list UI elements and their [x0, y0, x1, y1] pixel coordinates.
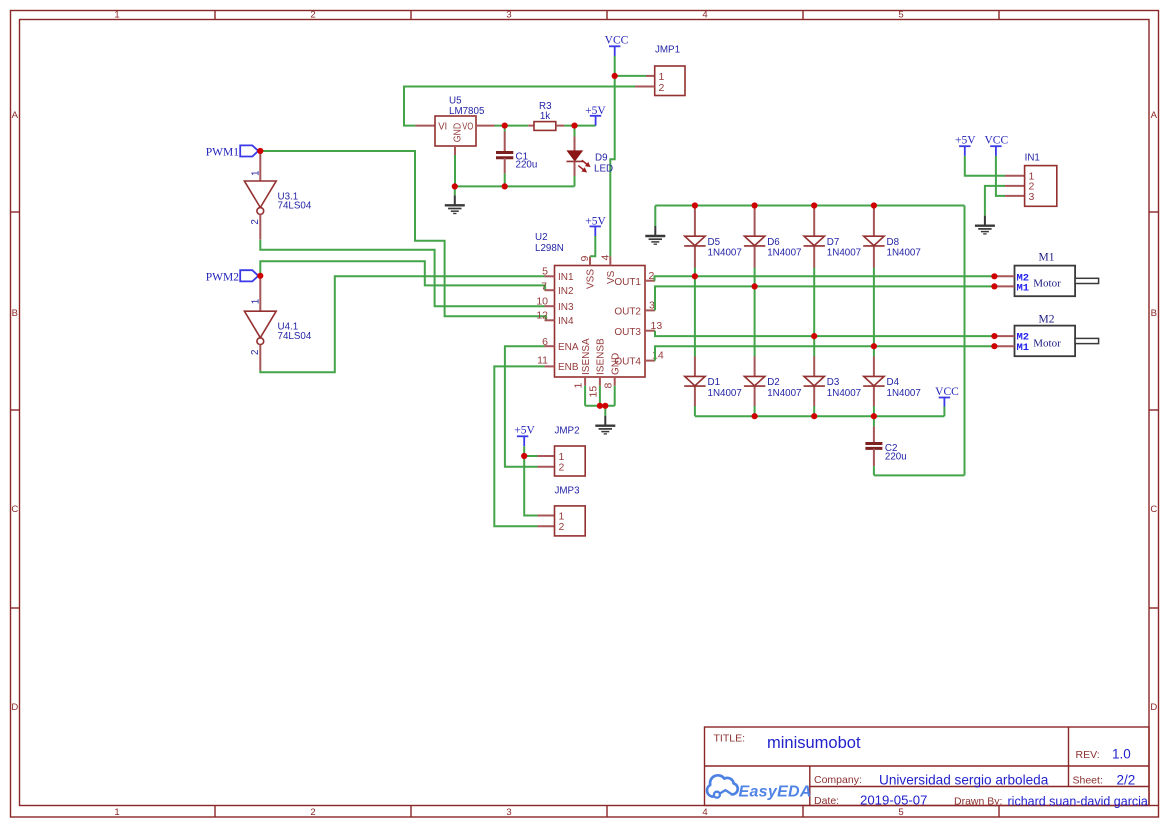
- inverter U4.1 74LS04: [244, 299, 311, 355]
- wire ENB to JMP3 pin 2: [494, 366, 544, 526]
- pin lead D9 cathode: [574, 161, 576, 176]
- svg-text:2: 2: [310, 807, 315, 818]
- svg-text:VO: VO: [462, 122, 473, 133]
- svg-text:VCC: VCC: [605, 35, 629, 47]
- pin jog U2 OUT3 pin 13: [645, 320, 662, 332]
- svg-text:1k: 1k: [540, 111, 550, 122]
- svg-text:OUT2: OUT2: [614, 306, 641, 317]
- svg-text:ISENSA: ISENSA: [581, 338, 592, 375]
- diode D5 1N4007: [684, 236, 742, 258]
- pin lead U4.1 output: [259, 345, 261, 371]
- node junction at 754.6,416.2: [752, 413, 758, 419]
- pin lead U2 GND pin 8: [603, 377, 615, 389]
- wire JMP1 pin 2 to U5 VI: [404, 87, 635, 126]
- svg-text:1: 1: [114, 10, 119, 21]
- node junction at 754.6,286.4: [752, 283, 758, 289]
- pin lead U5 VO: [476, 125, 495, 127]
- svg-text:3: 3: [506, 807, 511, 818]
- pin lead R3 left: [528, 125, 534, 127]
- pin lead R3 right: [556, 125, 565, 127]
- pin lead JMP1 pin 1: [646, 75, 655, 77]
- svg-text:D8: D8: [887, 237, 900, 248]
- column 2 wires: [754, 206, 756, 417]
- svg-text:EasyEDA: EasyEDA: [739, 784, 812, 801]
- net VCC symbol right of C2: [935, 386, 959, 407]
- svg-text:PWM1: PWM1: [206, 147, 239, 159]
- node junction at 504.7,186.4: [502, 183, 508, 189]
- svg-text:PWM2: PWM2: [206, 271, 239, 283]
- net +5V symbol above U2: [585, 216, 606, 236]
- node junction at 605.3,405.8: [602, 403, 608, 409]
- svg-text:+5V: +5V: [514, 425, 535, 437]
- svg-text:2: 2: [659, 82, 665, 94]
- svg-text:Sheet:: Sheet:: [1073, 775, 1103, 787]
- diode D8 1N4007: [863, 236, 921, 258]
- pin lead U4.1 input: [259, 276, 261, 311]
- svg-text:B: B: [1151, 308, 1157, 319]
- inverter U3.1 74LS04: [244, 171, 311, 225]
- svg-text:7: 7: [541, 281, 547, 293]
- svg-text:REV:: REV:: [1076, 749, 1100, 761]
- pin lead U2 IN4 pin 12: [536, 309, 554, 321]
- svg-text:U5: U5: [449, 96, 462, 107]
- motor M1: [1015, 252, 1099, 297]
- ground G1: [445, 195, 465, 213]
- frame row ticks right: [1149, 212, 1159, 806]
- svg-text:11: 11: [537, 355, 548, 367]
- wire VCC stem to rail: [943, 407, 945, 417]
- capacitor C1 220u: [496, 152, 537, 171]
- svg-text:D3: D3: [827, 377, 840, 388]
- svg-text:Drawn By:: Drawn By:: [954, 796, 1002, 808]
- svg-text:220u: 220u: [885, 452, 907, 463]
- svg-text:2019-05-07: 2019-05-07: [860, 793, 927, 808]
- pin lead U2 ENB pin 11: [537, 355, 554, 367]
- wire U5 VO to R3: [495, 125, 529, 127]
- node junction at 260.3,151: [257, 148, 263, 154]
- ground G4 under IN1: [975, 216, 995, 234]
- svg-text:D: D: [1150, 702, 1157, 713]
- svg-text:1N4007: 1N4007: [887, 388, 921, 399]
- svg-text:10: 10: [536, 295, 548, 307]
- capacitor C2 220u: [865, 416, 906, 475]
- svg-text:ENB: ENB: [558, 362, 579, 373]
- svg-text:1: 1: [250, 171, 261, 176]
- pin lead U5 VI: [415, 125, 435, 127]
- svg-text:M1: M1: [1017, 283, 1030, 295]
- wire +5V to IN1 pin 1: [965, 156, 1005, 176]
- svg-text:M2: M2: [1039, 313, 1055, 325]
- svg-text:JMP3: JMP3: [555, 486, 581, 497]
- pin lead U2 VS pin 4: [600, 255, 612, 266]
- svg-text:Motor: Motor: [1033, 278, 1061, 290]
- svg-text:2: 2: [559, 521, 565, 533]
- wire D9 cathode to rail: [574, 176, 576, 186]
- frame column numbers bottom: [114, 807, 903, 818]
- wire stem to ground G1: [454, 186, 456, 195]
- svg-text:IN1: IN1: [1025, 153, 1040, 164]
- svg-text:4: 4: [702, 10, 707, 21]
- svg-text:IN3: IN3: [558, 302, 574, 313]
- pin lead U3.1 output: [259, 214, 261, 239]
- svg-text:ENA: ENA: [558, 342, 579, 353]
- svg-text:VI: VI: [438, 122, 447, 133]
- connector JMP1: [655, 45, 685, 96]
- svg-text:1N4007: 1N4007: [767, 247, 801, 258]
- wire PWM1 to IN4 route: [260, 151, 546, 320]
- pin lead U2 IN1 pin 5: [542, 266, 554, 278]
- port flag PWM2: [206, 270, 259, 283]
- svg-text:2/2: 2/2: [1117, 773, 1136, 788]
- pin lead M1 pin M2: [994, 275, 1014, 277]
- svg-text:1N4007: 1N4007: [708, 388, 742, 399]
- svg-text:U2: U2: [535, 232, 548, 243]
- port flag PWM1: [206, 145, 259, 158]
- pin jog U2 OUT2 pin 3: [645, 300, 655, 312]
- svg-text:2: 2: [250, 219, 261, 224]
- svg-text:1N4007: 1N4007: [827, 247, 861, 258]
- frame row ticks left: [11, 212, 20, 608]
- frame row letters right: [1150, 110, 1157, 713]
- wire U4.1 output to IN1 route: [260, 276, 544, 372]
- svg-text:A: A: [12, 110, 19, 121]
- net +5V symbol near R3: [585, 105, 606, 126]
- svg-text:13: 13: [651, 320, 663, 332]
- svg-text:IN2: IN2: [558, 286, 574, 297]
- svg-text:TITLE:: TITLE:: [714, 733, 746, 745]
- node junction at 814.2,205.5: [811, 202, 817, 208]
- EasyEDA logo: [707, 775, 738, 797]
- pin lead JMP2 pin 2: [538, 466, 555, 468]
- wire VCC vertical down to U2 VS: [610, 76, 614, 257]
- svg-text:C: C: [11, 504, 18, 515]
- svg-text:D9: D9: [595, 153, 608, 164]
- node junction at 873.9,205.5: [871, 202, 877, 208]
- wire C1 bottom to rail: [504, 173, 506, 186]
- wire ISENSA ISENSB GND to ground: [585, 386, 615, 416]
- pin lead U2 ISENSA pin 1: [573, 377, 586, 389]
- node junction at 260.3,275.8: [257, 273, 263, 279]
- pin jog U2 OUT4 pin 14: [645, 350, 664, 362]
- node junction at 814.2,335: [811, 333, 817, 339]
- svg-text:Motor: Motor: [1033, 337, 1061, 349]
- svg-text:VS: VS: [606, 270, 617, 284]
- wire OUT2 to M1: [655, 286, 994, 310]
- node junction at 524,456: [521, 453, 527, 459]
- pin lead D9 anode: [574, 137, 576, 152]
- node junction at 754.6,205.5: [752, 202, 758, 208]
- svg-text:5: 5: [542, 266, 548, 278]
- ground G2 under U2: [595, 416, 615, 434]
- svg-text:LED: LED: [594, 163, 613, 174]
- svg-text:OUT3: OUT3: [614, 327, 641, 338]
- svg-text:5: 5: [898, 10, 903, 21]
- connector IN1: [1025, 153, 1057, 207]
- svg-text:12: 12: [536, 309, 548, 321]
- wire OUT4 to M2: [655, 346, 994, 360]
- net +5V symbol near IN1: [955, 135, 976, 156]
- diode D7 1N4007: [804, 236, 862, 258]
- pin lead C1 top: [504, 132, 506, 153]
- ic U2 L298N body: [535, 232, 645, 377]
- wire GND rail right leg down: [964, 206, 966, 476]
- frame row letters left: [11, 110, 18, 713]
- column 4 wires: [873, 206, 875, 417]
- svg-text:14: 14: [652, 350, 664, 362]
- wire C1 top lead: [504, 126, 506, 132]
- node junction at 694.9,276.3: [692, 273, 698, 279]
- svg-text:+5V: +5V: [955, 135, 976, 147]
- wire VCC stem to junction: [614, 56, 616, 76]
- svg-text:JMP1: JMP1: [655, 45, 680, 56]
- wire IN1 pin 2 to ground: [985, 186, 1005, 216]
- svg-text:8: 8: [603, 383, 615, 389]
- svg-text:3: 3: [1029, 191, 1035, 203]
- svg-text:IN1: IN1: [558, 272, 574, 283]
- svg-text:JMP2: JMP2: [555, 426, 580, 437]
- svg-text:1N4007: 1N4007: [887, 247, 921, 258]
- pin lead IN1 pin 1: [1005, 175, 1025, 177]
- svg-text:ISENSB: ISENSB: [596, 338, 607, 375]
- svg-text:2: 2: [559, 462, 565, 474]
- svg-text:GND: GND: [453, 123, 464, 143]
- pin lead JMP2 pin 1: [538, 455, 555, 457]
- svg-text:5: 5: [898, 807, 903, 818]
- connector JMP2: [555, 426, 586, 477]
- svg-text:1: 1: [659, 71, 665, 83]
- node junction at 454.8,186.4: [452, 183, 458, 189]
- node junction at 504.7,125.6: [502, 123, 508, 129]
- wire PWM2 to IN2 route: [260, 261, 545, 290]
- wire stem to ground G3: [654, 206, 656, 227]
- wire U5 GND to rail: [454, 155, 456, 186]
- wire VCC bottom rail: [695, 415, 945, 417]
- wire GND top rail: [655, 205, 964, 207]
- svg-text:minisumobot: minisumobot: [767, 734, 861, 752]
- svg-text:4: 4: [702, 807, 707, 818]
- svg-text:1: 1: [573, 383, 585, 389]
- wire ground rail under U5: [455, 185, 575, 187]
- svg-text:74LS04: 74LS04: [278, 201, 312, 212]
- regulator U5 LM7805: [435, 96, 485, 147]
- net VCC power symbol top: [605, 35, 629, 57]
- svg-text:GND: GND: [610, 353, 621, 375]
- pin lead JMP1 pin 2: [635, 86, 655, 88]
- svg-text:A: A: [1151, 110, 1158, 121]
- pin lead U2 IN3 pin 10: [536, 295, 554, 307]
- node junction at 614.7,75.9: [612, 73, 618, 79]
- pin lead M2 pin M1: [994, 345, 1014, 347]
- svg-text:1: 1: [114, 807, 119, 818]
- wire R3 to +5V: [564, 125, 595, 127]
- wire +5V to JMP2 pin 1: [524, 446, 537, 456]
- pin lead JMP3 pin 1: [538, 515, 555, 517]
- svg-text:L298N: L298N: [535, 243, 564, 254]
- wire +5V to VSS: [590, 236, 595, 256]
- wire C2 bottom to right leg: [874, 474, 965, 476]
- svg-text:VCC: VCC: [935, 386, 959, 398]
- node junction at 574.5,125.6: [571, 123, 577, 129]
- wire U3.1 output to IN3 route: [260, 240, 544, 307]
- svg-text:2: 2: [250, 350, 261, 355]
- diode D3 1N4007: [804, 376, 862, 399]
- column 1 wires: [694, 206, 696, 417]
- svg-text:OUT1: OUT1: [614, 277, 641, 288]
- node junction at 873.9,416.2: [871, 413, 877, 419]
- diode D2 1N4007: [744, 376, 802, 399]
- pin lead M2 pin M2: [994, 335, 1014, 337]
- pin lead U2 IN2 pin 7: [541, 281, 554, 293]
- pin lead C1 bottom: [504, 158, 506, 173]
- svg-text:D5: D5: [708, 237, 721, 248]
- svg-text:74LS04: 74LS04: [278, 331, 312, 342]
- diode D1 1N4007: [684, 376, 742, 399]
- frame column ticks bottom: [215, 806, 999, 818]
- wire ENA to JMP2 pin 2: [505, 346, 545, 467]
- node junction at 873.9,345.5: [871, 343, 877, 349]
- svg-text:D7: D7: [827, 237, 840, 248]
- pin lead U2 VSS pin 9: [579, 256, 591, 266]
- frame column ticks top: [215, 11, 999, 20]
- pin lead U5 GND: [454, 146, 456, 155]
- svg-text:Company:: Company:: [814, 774, 862, 786]
- svg-text:B: B: [12, 308, 18, 319]
- svg-text:IN4: IN4: [558, 316, 574, 327]
- svg-text:1N4007: 1N4007: [708, 247, 742, 258]
- svg-text:VCC: VCC: [984, 135, 1008, 147]
- title block outline: [705, 727, 1150, 806]
- svg-text:Date:: Date:: [814, 795, 839, 807]
- pin lead U2 ISENSB pin 15: [588, 377, 600, 398]
- net +5V symbol near JMP2: [514, 425, 535, 447]
- node junction at 994.4,286.4: [991, 283, 997, 289]
- resistor R3 1k: [534, 101, 556, 131]
- svg-text:Universidad sergio arboleda: Universidad sergio arboleda: [879, 773, 1049, 788]
- svg-text:C: C: [1150, 504, 1157, 515]
- pin lead M1 pin M1: [994, 285, 1014, 287]
- svg-text:1N4007: 1N4007: [767, 388, 801, 399]
- node junction at 694.9,205.5: [692, 202, 698, 208]
- svg-text:1N4007: 1N4007: [827, 388, 861, 399]
- svg-text:M1: M1: [1017, 342, 1030, 354]
- svg-text:D4: D4: [887, 377, 900, 388]
- svg-text:2: 2: [310, 10, 315, 21]
- svg-text:D6: D6: [767, 237, 780, 248]
- pin lead IN1 pin 3: [1005, 195, 1025, 197]
- wire VCC junction to JMP1 pin 1: [615, 75, 646, 77]
- svg-text:4: 4: [600, 255, 612, 261]
- ground G3 at rail left: [645, 226, 665, 244]
- svg-text:3: 3: [506, 10, 511, 21]
- wire junction to D9: [574, 126, 576, 137]
- net VCC symbol near IN1: [984, 135, 1008, 156]
- led D9: [567, 151, 614, 174]
- wire OUT1 to M1: [655, 276, 995, 280]
- svg-text:richard suan-david garcia: richard suan-david garcia: [1008, 795, 1148, 809]
- frame column numbers top: [114, 10, 903, 21]
- svg-text:9: 9: [579, 256, 591, 262]
- svg-text:D2: D2: [767, 377, 780, 388]
- svg-text:15: 15: [588, 386, 600, 398]
- column 3 wires: [813, 206, 815, 417]
- wire VCC to IN1 pin 3: [996, 156, 1005, 196]
- svg-text:D: D: [11, 702, 18, 713]
- pin lead IN1 pin 2: [1005, 185, 1025, 187]
- node junction at 994.4,335: [991, 333, 997, 339]
- svg-text:VSS: VSS: [586, 269, 597, 289]
- svg-text:M1: M1: [1039, 252, 1055, 264]
- node junction at 814.2,416.2: [811, 413, 817, 419]
- motor M2: [1015, 313, 1099, 356]
- svg-text:1: 1: [250, 299, 261, 304]
- node junction at 994.4,345.5: [991, 343, 997, 349]
- svg-text:220u: 220u: [516, 159, 538, 170]
- svg-text:D1: D1: [708, 377, 721, 388]
- wire OUT3 to M2: [655, 331, 994, 336]
- node junction at 599.9,405.8: [597, 403, 603, 409]
- wire +5V down to JMP3 pin 1: [524, 456, 537, 516]
- connector JMP3: [555, 486, 586, 536]
- pin lead JMP3 pin 2: [538, 525, 555, 527]
- diode D4 1N4007: [863, 376, 921, 399]
- pin jog U2 OUT1 pin 2: [645, 270, 655, 282]
- diode D6 1N4007: [744, 236, 802, 258]
- pin lead U2 ENA pin 6: [542, 336, 554, 348]
- node junction at 994.4,276.3: [991, 273, 997, 279]
- pin lead U3.1 input: [259, 151, 261, 181]
- svg-text:1.0: 1.0: [1112, 747, 1131, 762]
